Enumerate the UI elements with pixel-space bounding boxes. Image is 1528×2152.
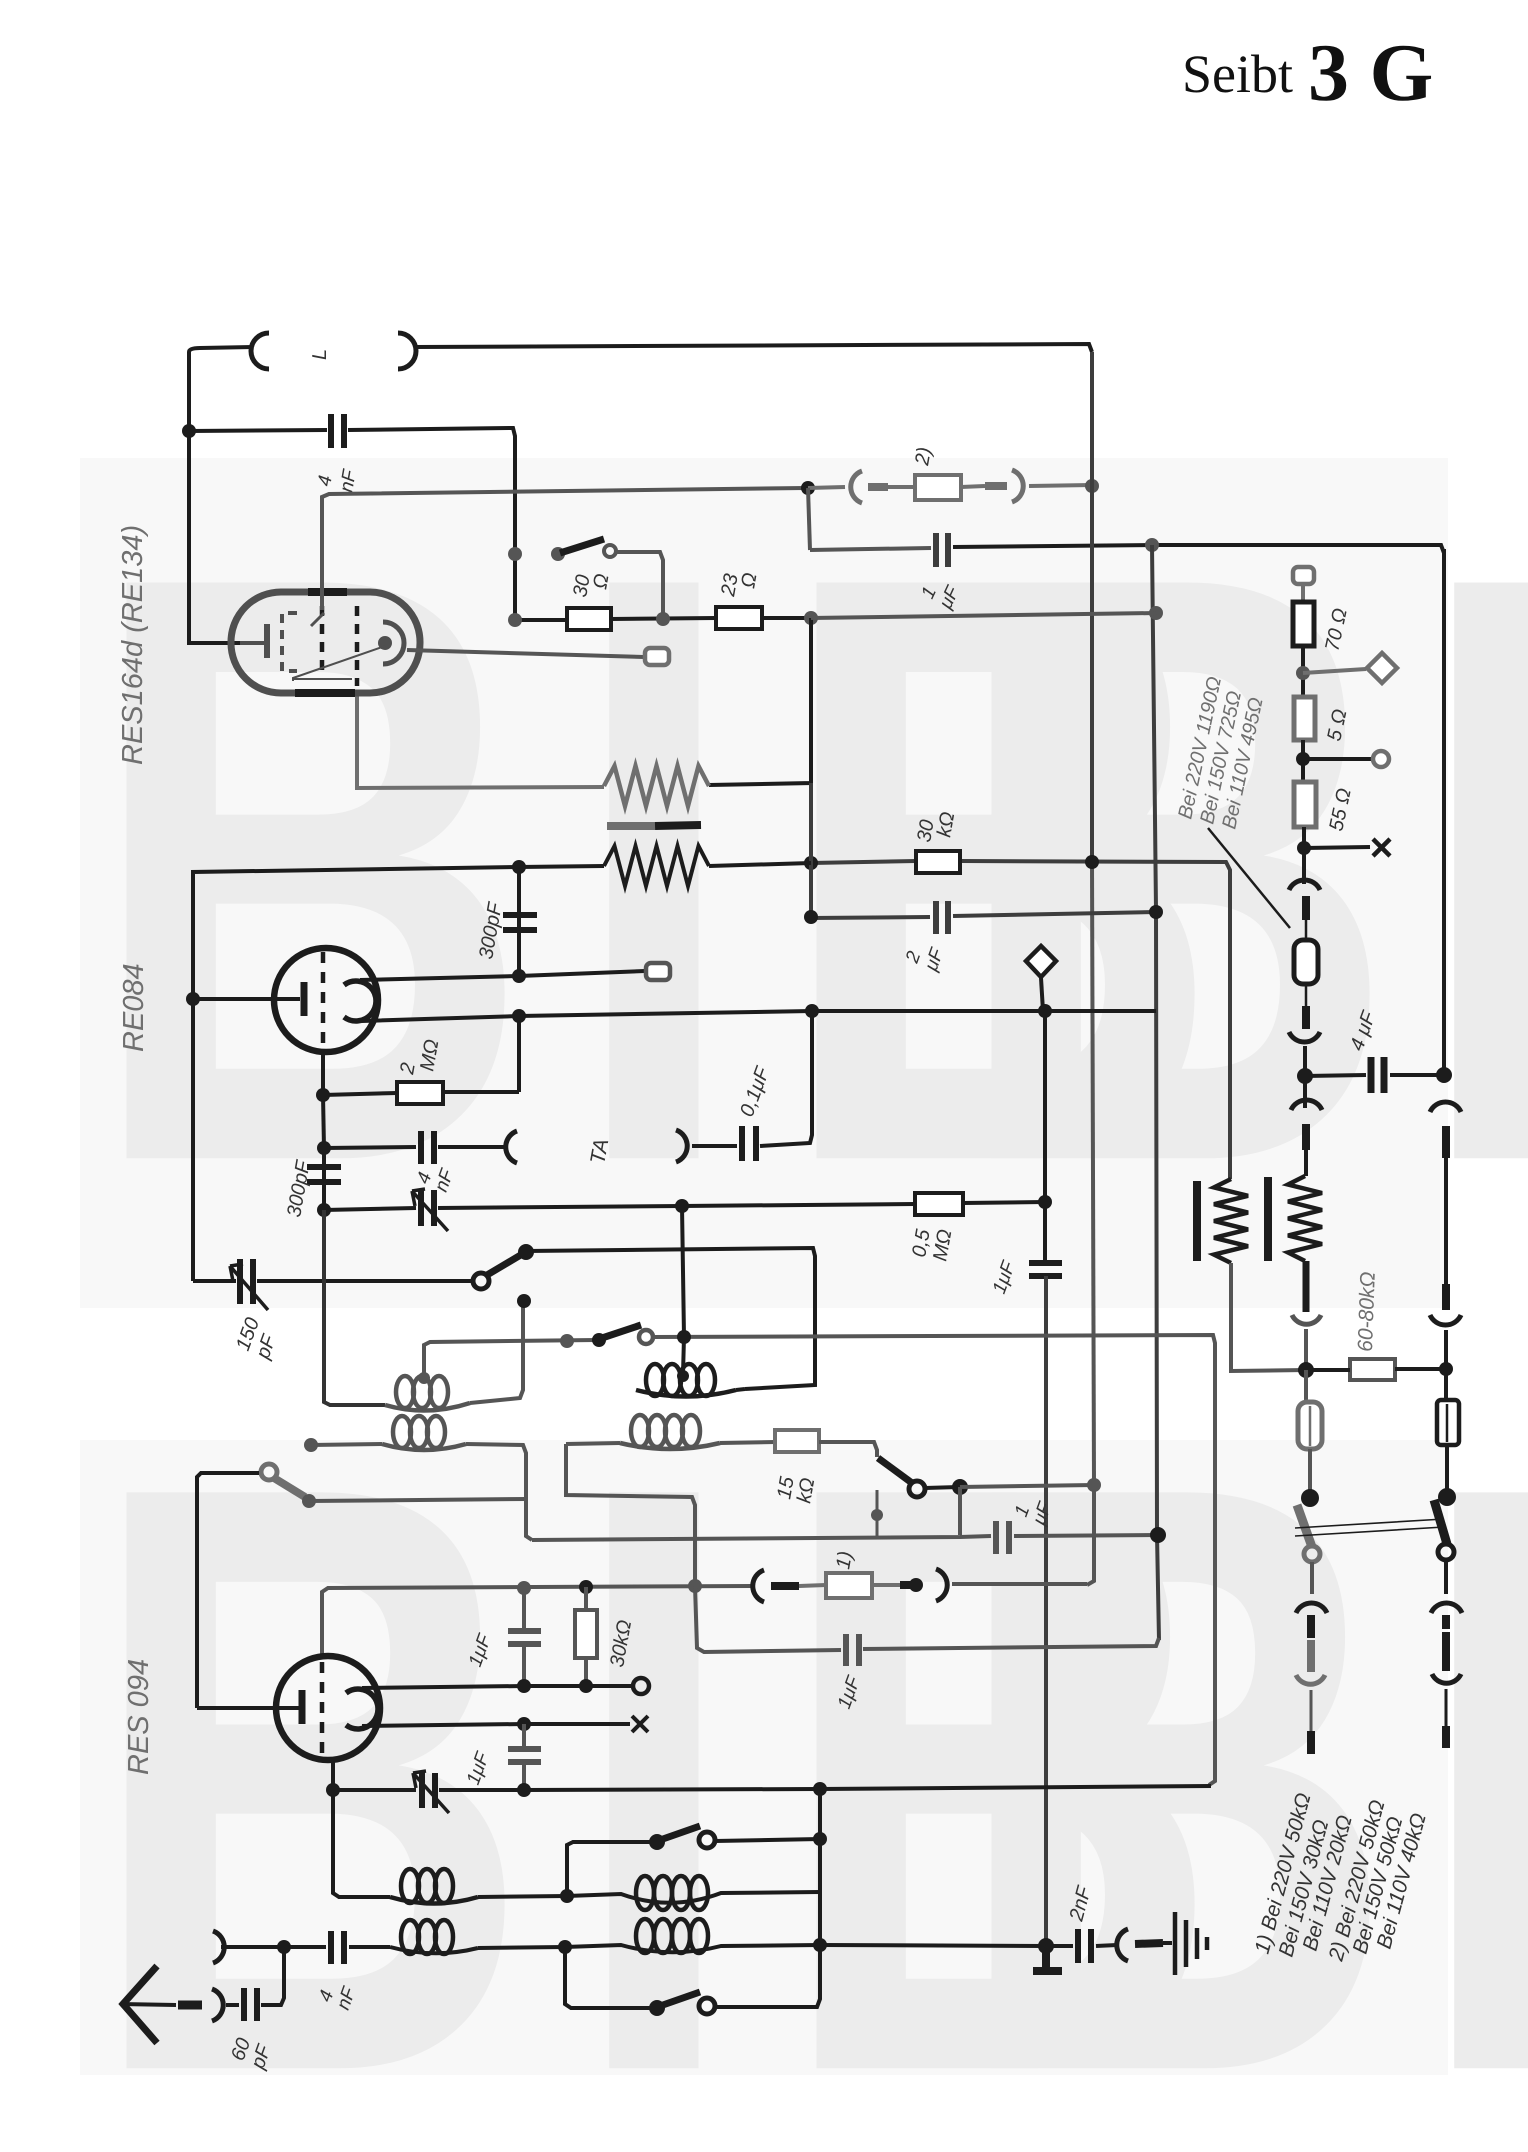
- stem to 4uF node: [1303, 1046, 1307, 1076]
- resistor 60-80k body: [1350, 1359, 1395, 1380]
- tube bottom dark segment: [295, 689, 355, 697]
- wire fuse to x1094: [952, 1582, 1087, 1586]
- capacitor 1uF d: [508, 1749, 541, 1762]
- grid 3 dashed: [355, 606, 360, 686]
- switch 150pF blade: [487, 1253, 524, 1275]
- coil L1a tap dot: [418, 1372, 430, 1384]
- grid 2 dashed: [320, 606, 325, 680]
- switch mid circle: [909, 1481, 925, 1497]
- wire 23ohm to node: [762, 616, 811, 620]
- right column pin: [1442, 1126, 1450, 1158]
- wire node to x1094: [960, 1485, 1094, 1487]
- node coil II right: [813, 1938, 827, 1952]
- node 30k x1092: [1085, 855, 1099, 869]
- resistor 55 ohm vertical: [1294, 782, 1316, 827]
- capacitor 0.1uF: [742, 1126, 756, 1161]
- wire to 2M: [323, 1092, 519, 1095]
- switch II circle: [699, 1998, 715, 2014]
- wire 1uFe to corner: [863, 1638, 1159, 1649]
- circle terminal: [1373, 751, 1389, 767]
- cathode bar RES094: [299, 1690, 306, 1724]
- wire switch I stub: [567, 1842, 650, 1896]
- wire switch mid to node: [925, 1487, 959, 1488]
- grid dashed RE084: [321, 952, 326, 1050]
- wire black link L2: [566, 1443, 695, 1585]
- wire 4nFd row: [284, 1945, 390, 1949]
- wire grid RE084 down to coil: [324, 1210, 385, 1405]
- switch 150pF circle: [473, 1273, 489, 1289]
- pot1 bottom wire: [1231, 1263, 1306, 1371]
- right column wire to 60-80k row: [1444, 1330, 1448, 1402]
- variable arrow e: [413, 1771, 449, 1813]
- svg-text:2): 2): [911, 446, 936, 468]
- capacitor 4nF b: [421, 1131, 434, 1164]
- wire L3a to node: [478, 1896, 567, 1897]
- wire 15k to switch: [819, 1442, 877, 1457]
- wire 0.1uF up to anode row: [760, 1011, 812, 1146]
- grid dashed RES094: [320, 1662, 325, 1758]
- node y1686 a: [517, 1679, 531, 1693]
- diamond connector TA: [1026, 946, 1056, 977]
- cathode lead RES094: [197, 1706, 303, 1710]
- wire TA row: [324, 1147, 416, 1148]
- resistor 5 ohm vertical: [1294, 697, 1315, 740]
- switch dot left: [1301, 1489, 1319, 1507]
- wire L2b to 15k: [720, 1442, 775, 1443]
- wire 1uF e row: [695, 1586, 841, 1652]
- wire 70ohm to node: [1301, 646, 1305, 697]
- node grid row x695: [688, 1579, 702, 1593]
- node x1045 top: [1038, 1004, 1052, 1018]
- node grid row 30k: [579, 1580, 593, 1594]
- right column arc below 4uF: [1430, 1102, 1461, 1112]
- node var row RES094: [326, 1783, 340, 1797]
- fuse 2) connector arc right: [1012, 470, 1023, 502]
- gang coupling lines: [1295, 1519, 1444, 1536]
- svg-text:Seibt: Seibt: [1182, 44, 1293, 104]
- wire TA to 0.1uF: [692, 1144, 737, 1148]
- switch circle right: [1438, 1544, 1454, 1560]
- wire grid down: [323, 1095, 324, 1148]
- wire 60pF to corner up: [261, 1947, 284, 2005]
- node switch I right: [813, 1832, 827, 1846]
- potentiometer zigzag 1: [1214, 1179, 1248, 1263]
- coil L3b black: [567, 1892, 820, 1903]
- wire anode to terminal: [407, 650, 644, 657]
- wire 4nFb to TA arc: [438, 1145, 505, 1149]
- title Seibt 3G: [1182, 27, 1433, 118]
- x terminal: [1373, 839, 1390, 856]
- resistor 0.5M body: [915, 1193, 963, 1215]
- coil row2 terminal dot: [304, 1438, 318, 1452]
- watermark BIB row 1: [80, 402, 1528, 1336]
- node coil II mid: [558, 1940, 572, 1954]
- variable arrow 150pF: [230, 1264, 268, 1310]
- node y1535: [1150, 1527, 1166, 1543]
- node 2nF: [1038, 1938, 1054, 1954]
- wire y1250 to wrap corner: [526, 1248, 815, 1389]
- capacitor 1uF b: [1029, 1263, 1062, 1276]
- switch S1 contact circle: [604, 545, 616, 557]
- resistor 23 ohm: [716, 607, 762, 629]
- long vertical right x1444: [1442, 549, 1446, 1075]
- anode dot: [378, 636, 392, 650]
- coil L2a gray: [382, 1444, 466, 1450]
- node row A x684: [677, 1330, 691, 1344]
- resistor 30 ohm: [567, 608, 611, 630]
- capacitor 4nF d: [331, 1931, 344, 1964]
- switch II blade: [660, 1992, 700, 2006]
- capacitor 4nF c variable: [421, 1190, 434, 1226]
- coil L4b black: [565, 1945, 820, 1952]
- anode top lead RES094: [362, 1686, 632, 1688]
- cathode bar RES164d: [264, 624, 270, 658]
- node var row mid: [675, 1199, 689, 1213]
- cathode lead RE084: [193, 997, 300, 1001]
- plug arc 2nF: [1117, 1929, 1128, 1961]
- wire L to right corner: [414, 344, 1092, 352]
- wire switch I to node: [715, 1839, 820, 1841]
- capacitor 4uF: [1371, 1057, 1384, 1093]
- capacitor 300pF b: [307, 1167, 341, 1182]
- wire 2M vertical link: [517, 1016, 521, 1092]
- node 1uF right: [1145, 538, 1159, 552]
- fuse 1) body: [826, 1573, 872, 1598]
- leader line: [1208, 828, 1290, 928]
- switch RES094 dot: [302, 1494, 316, 1508]
- diamond connector: [1367, 653, 1397, 683]
- wire 5ohm to node: [1301, 740, 1305, 782]
- anode cap terminal square: [645, 648, 669, 665]
- long vertical x1155: [1152, 545, 1159, 1640]
- switch S1 dot: [551, 547, 565, 561]
- potentiometer bar 1: [1193, 1181, 1201, 1261]
- wire 30ohm row: [515, 618, 716, 620]
- wire 1uFd vertical: [522, 1724, 526, 1790]
- wire 300pF b: [322, 1148, 326, 1210]
- coil L1a gray: [385, 1403, 470, 1411]
- wire 30k row: [811, 861, 1230, 1179]
- left vertical RES094: [197, 1473, 259, 1708]
- resistor 30k body: [916, 851, 960, 873]
- svg-text:RES164d (RE134): RES164d (RE134): [117, 525, 149, 765]
- switch blade left gray: [1297, 1505, 1312, 1547]
- wire terminal to 70ohm: [1301, 584, 1305, 602]
- wire 4nF row: [189, 430, 327, 431]
- wire node down y1537 row: [958, 1487, 962, 1535]
- right column arc 2: [1430, 1315, 1461, 1325]
- capacitor 300pF a: [503, 915, 537, 930]
- TA connector arc left: [506, 1131, 517, 1163]
- capacitor 1uF e: [846, 1634, 859, 1666]
- long vertical x1092: [1090, 352, 1094, 863]
- chassis bar: [1033, 1946, 1062, 1971]
- cup arc pot2: [1292, 1315, 1321, 1324]
- node tap1: [1296, 666, 1310, 680]
- switch row A blade: [602, 1325, 641, 1338]
- wire to fuse arc: [808, 487, 845, 488]
- wire node down to 1uF row: [808, 488, 810, 550]
- plug pin 2nF: [1135, 1943, 1163, 1944]
- capacitor 1uF a: [936, 533, 948, 567]
- coil L1b tap dot: [677, 1370, 689, 1382]
- coil L3a black: [390, 1897, 478, 1904]
- svg-text:TA: TA: [586, 1137, 613, 1166]
- plug arc below tap3: [1289, 880, 1320, 890]
- wire var row to node: [438, 1204, 915, 1208]
- node row A mid: [560, 1334, 574, 1348]
- anode arc RES164d: [383, 622, 404, 664]
- TA connector arc right: [676, 1130, 687, 1162]
- wire 30kv: [584, 1587, 588, 1686]
- wire tap1 to diamond: [1303, 669, 1366, 673]
- tube RES164d envelope: [231, 592, 420, 693]
- node 30ohm left: [508, 613, 522, 627]
- fuse left column: [1304, 1370, 1308, 1402]
- wire tube bottom to coil row I: [333, 1790, 390, 1897]
- wire grid top RES164d: [322, 488, 805, 610]
- wire left vertical to tube cathode: [189, 430, 262, 643]
- node x1094 y1485: [1087, 1478, 1101, 1492]
- node anode top 300pF: [512, 969, 526, 983]
- wire 150pF row: [193, 1279, 473, 1283]
- antenna symbol: [123, 1966, 157, 2043]
- gray dot x877: [871, 1509, 883, 1521]
- svg-text:RE084: RE084: [118, 963, 150, 1052]
- node y1686 b: [579, 1679, 593, 1693]
- svg-text:kΩ: kΩ: [793, 1476, 819, 1505]
- node 4uF left: [1297, 1068, 1313, 1084]
- switch row A circle: [639, 1330, 653, 1344]
- node TA row left: [317, 1141, 331, 1155]
- potentiometer bar 2: [1264, 1177, 1272, 1261]
- watermark BIB row 2: [80, 1312, 1528, 2152]
- switch blade right: [1434, 1500, 1447, 1544]
- wire to coil L2a: [311, 1444, 382, 1445]
- wire L1b to wrap: [736, 1389, 745, 1390]
- variable arrow c: [412, 1189, 448, 1231]
- node tap3: [1297, 841, 1311, 855]
- fuse 1) arc right: [936, 1569, 947, 1601]
- wire 2nF to arc: [1046, 1945, 1117, 1946]
- tube RE084 envelope: [274, 948, 378, 1052]
- wire y1537 row: [532, 1536, 991, 1540]
- node fuse2 left: [801, 481, 815, 495]
- node cathode left: [186, 992, 200, 1006]
- wire 1uF row: [810, 548, 931, 550]
- wire 2uF row: [811, 783, 930, 918]
- wire x877 stub: [876, 1490, 879, 1539]
- wire L4a to node: [478, 1947, 565, 1948]
- svg-text:60-80kΩ: 60-80kΩ: [1354, 1271, 1380, 1352]
- switch I blade: [660, 1826, 700, 1840]
- pot2 bottom pin: [1303, 1261, 1310, 1312]
- switch RES094 blade: [274, 1478, 305, 1497]
- anode arc RE084: [344, 981, 376, 1021]
- antenna pin: [178, 2001, 202, 2010]
- wire switch to corner down: [616, 552, 663, 620]
- resistor 30k vertical body: [575, 1610, 597, 1658]
- wire row A: [424, 1340, 596, 1378]
- potentiometer zigzag 2: [1288, 1176, 1322, 1261]
- cap arc below: [1291, 1100, 1322, 1110]
- grid 2 tick: [311, 613, 324, 626]
- node 60-80k left: [1298, 1362, 1314, 1378]
- wire 60-80k row: [1306, 1369, 1446, 1370]
- wire x684 down to coil L1b: [682, 1206, 684, 1374]
- node fuse right: [909, 1578, 923, 1592]
- capacitor 60pF: [244, 1988, 257, 2021]
- ground: [1163, 1941, 1172, 1945]
- switch row A dot: [592, 1333, 606, 1347]
- fuse 1) pin: [771, 1582, 799, 1590]
- resistor 2M body: [397, 1082, 443, 1104]
- mains terminal square: [1293, 567, 1314, 584]
- wire switch II stub: [565, 1947, 650, 2008]
- pin below: [1302, 1124, 1310, 1150]
- wire fuse to node: [1029, 485, 1092, 486]
- node 60-80k right: [1439, 1362, 1453, 1376]
- resistor 70 ohm vertical: [1293, 602, 1314, 646]
- node var row x820: [813, 1782, 827, 1796]
- fuse 1) pin right: [872, 1583, 900, 1587]
- wire 1uF to right corner: [953, 545, 1444, 553]
- slider bar under heater: [607, 822, 655, 830]
- wire var row mid: [439, 1789, 818, 1790]
- switch II dot: [649, 2000, 665, 2016]
- wire x1094 to fuse1 row: [1087, 1485, 1094, 1585]
- wire 1uFf to node: [1014, 1535, 1158, 1536]
- node x1092 y486: [1085, 479, 1099, 493]
- fuse 2) pin right: [961, 486, 985, 487]
- antenna arc: [212, 1989, 223, 2021]
- right col below switch: [1444, 1560, 1448, 1594]
- node y1487: [952, 1479, 968, 1495]
- node coil I mid: [560, 1889, 574, 1903]
- capacitor 4nF e variable: [422, 1773, 435, 1808]
- capacitor 2uF: [936, 901, 948, 934]
- node 23ohm out: [804, 611, 818, 625]
- switch circle left: [1304, 1546, 1320, 1562]
- node y613: [1149, 606, 1163, 620]
- right column wire: [1444, 1158, 1448, 1284]
- wire antenna to 60pF: [226, 2003, 239, 2007]
- wire RE084 top row: [193, 866, 604, 1281]
- node 0.1uF top: [805, 1004, 819, 1018]
- svg-text:RES 094: RES 094: [123, 1659, 155, 1775]
- node y1724: [517, 1717, 531, 1731]
- fuse 2) connector arc left: [851, 471, 862, 503]
- wire grid row RES094: [322, 1586, 752, 1658]
- node anode bottom: [512, 1009, 526, 1023]
- antenna arc II: [213, 1931, 224, 1963]
- fuse right column: [1437, 1400, 1459, 1445]
- capacitor 150pF variable: [240, 1259, 253, 1304]
- diamond TA stem: [1041, 978, 1043, 1011]
- anode bottom lead RES094: [362, 1724, 630, 1726]
- x terminal y1724: [632, 1716, 648, 1732]
- wire var row to right corner: [820, 1786, 1211, 1789]
- tube RES094 bottom wire: [331, 1760, 335, 1790]
- wire 0.5M to node: [963, 1202, 1045, 1203]
- wire row II to 2nF: [820, 1945, 1046, 1946]
- node top row 300pF: [512, 860, 526, 874]
- capacitor 4nF top: [331, 414, 344, 448]
- wire heater to tube: [357, 690, 604, 788]
- wire x1046 long down: [1044, 1276, 1048, 1946]
- capacitor 1uF f: [996, 1521, 1009, 1554]
- wire 1uFc vertical: [522, 1588, 526, 1686]
- anode arc RES094: [346, 1689, 378, 1729]
- connector arc L left: [251, 333, 269, 369]
- wire 4uF row: [1305, 1075, 1444, 1076]
- grid 1 dashed bracket: [282, 613, 297, 671]
- open circle terminal y1686: [633, 1678, 649, 1694]
- svg-text:L: L: [309, 349, 331, 360]
- node var row x524: [517, 1783, 531, 1797]
- fuse 1) connector arc: [753, 1570, 764, 1602]
- wire x1045 down: [1043, 1011, 1047, 1260]
- plug pin: [1302, 896, 1310, 920]
- right column pin 2: [1442, 1284, 1450, 1310]
- node antenna x284: [277, 1940, 291, 1954]
- wire L2a to corner down: [466, 1444, 532, 1540]
- wire 2uF to node: [953, 912, 1156, 916]
- coil L4a black: [390, 1947, 478, 1953]
- switch I dot: [649, 1834, 665, 1850]
- svg-text:1): 1): [832, 1550, 857, 1571]
- node A: [182, 424, 196, 438]
- switch S1 blade: [560, 539, 604, 553]
- cup arc: [1289, 1032, 1320, 1042]
- fuse body mains: [1294, 940, 1318, 984]
- capacitor 2nF: [1078, 1929, 1091, 1963]
- antenna lead: [123, 2004, 176, 2005]
- wire y613 row: [811, 613, 1156, 618]
- stem to node60: [1304, 1329, 1308, 1370]
- grid cap terminal RE084: [646, 963, 670, 980]
- wire x820 vertical: [818, 1789, 822, 1944]
- coil L2b gray: [620, 1443, 720, 1449]
- capacitor 1uF c: [508, 1631, 541, 1644]
- wire tap3 to x mark: [1304, 847, 1370, 848]
- wire var row: [324, 1208, 416, 1210]
- plug pin above arc: [1302, 1006, 1310, 1029]
- wire antenna row II left: [221, 1945, 284, 1949]
- node 30ohm right: [656, 612, 670, 626]
- wire switch II to corner: [715, 1945, 820, 2007]
- fuse 2) pin left: [868, 483, 888, 491]
- wire row A right: [653, 1335, 1215, 1785]
- wire pin to pot2 top: [1304, 1150, 1308, 1176]
- connector arc L right: [398, 333, 416, 369]
- left col below switch: [1310, 1562, 1314, 1594]
- resistor 15k body: [775, 1430, 819, 1452]
- switch I circle: [699, 1832, 715, 1848]
- wire 55ohm to node: [1302, 827, 1306, 884]
- terminal dot x523: [517, 1294, 531, 1308]
- tube RES094 envelope: [276, 1656, 380, 1760]
- wire switch to x526: [309, 1499, 526, 1501]
- anode top lead: [360, 971, 645, 980]
- node 30k left: [804, 856, 818, 870]
- wire 4nF to corner and down: [348, 428, 515, 620]
- node grid bottom: [316, 1088, 330, 1102]
- anode bottom lead: [362, 1011, 1156, 1021]
- resistor anode zigzag black: [604, 846, 709, 886]
- stem below node left: [1303, 1076, 1307, 1108]
- cathode bar RE084: [301, 982, 308, 1016]
